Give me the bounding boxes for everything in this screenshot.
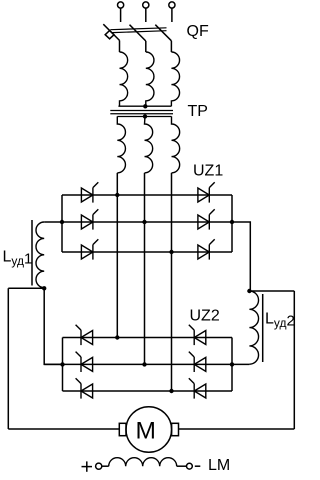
wire QF pole3 to TP	[170, 41, 172, 52]
wire QF pole1 to TP	[119, 41, 121, 53]
motor brush right	[172, 423, 179, 435]
junction phase C / UZ1 row3	[169, 250, 173, 254]
wire UZ1 row 2	[44, 221, 232, 223]
terminal LM plus	[96, 463, 102, 469]
terminal L1	[118, 2, 124, 22]
wire LM left	[102, 465, 109, 467]
thyristor UZ1 VS5	[198, 209, 215, 229]
breaker QF pole 3 blade	[155, 25, 171, 41]
junction Lud1 bottom	[42, 286, 46, 290]
breaker QF pole 1 blade	[103, 24, 119, 40]
thyristor UZ2 VS7	[76, 325, 93, 345]
svg-text:UZ1: UZ1	[193, 162, 223, 179]
wire QF pole2 to TP	[145, 41, 147, 52]
wire LM right	[177, 465, 187, 467]
label plus	[82, 461, 93, 471]
wire UZ1 row 1	[62, 194, 232, 196]
reactor Lud1 core bar	[31, 220, 33, 286]
terminal L2	[143, 2, 149, 22]
junction primary bus / winding 2	[143, 104, 147, 108]
junction phase B / UZ1 row2	[142, 220, 146, 224]
wire UZ1 output right	[232, 222, 250, 291]
thyristor UZ1 VS6	[198, 239, 215, 259]
junction phase A / UZ1 row1	[115, 193, 119, 197]
wire TP primary star bus	[118, 105, 171, 107]
thyristor UZ2 VS9	[76, 378, 93, 398]
breaker QF pole 2 blade	[130, 25, 146, 41]
transformer TP primary winding 3	[171, 52, 179, 106]
thyristor UZ1 VS1	[81, 182, 98, 202]
junction UZ1 right bus / row2	[230, 220, 234, 224]
thyristor UZ2 VS10	[189, 325, 206, 345]
transformer TP secondary winding 3	[172, 116, 180, 172]
thyristor UZ2 VS8	[76, 352, 93, 372]
thyristor UZ1 VS2	[81, 209, 98, 229]
junction phase B / UZ2 row2	[142, 362, 146, 366]
junction UZ2 left bus / row2	[60, 362, 64, 366]
wire phase C down to UZ2 row3	[171, 173, 173, 391]
wire motor right	[179, 428, 295, 430]
wire UZ2 row 1	[63, 337, 233, 339]
field winding LM	[109, 458, 177, 467]
breaker QF linkage bar	[110, 28, 166, 33]
svg-text:LM: LM	[208, 457, 230, 474]
thyristor UZ2 VS11	[189, 352, 206, 372]
wire right edge down to motor	[293, 291, 295, 429]
svg-text:M: M	[135, 418, 155, 445]
svg-text:UZ2: UZ2	[190, 308, 220, 325]
motor brush left	[119, 423, 126, 435]
thyristor UZ2 VS12	[189, 378, 206, 398]
wire left edge down to motor	[7, 288, 9, 429]
wire phase B down to UZ2 row2	[144, 173, 146, 365]
reactor Lud2 core bar	[262, 294, 264, 362]
wire UZ2 left bus	[62, 338, 64, 392]
wire UZ1 left bus	[61, 195, 63, 252]
reactor Lud2 coil	[249, 291, 258, 364]
wire Lud1 bottom down to UZ2	[44, 288, 62, 364]
svg-text:QF: QF	[187, 23, 209, 40]
junction Lud2 top	[247, 289, 251, 293]
terminal LM minus	[187, 463, 193, 469]
motor M body	[126, 407, 172, 453]
terminal L3	[169, 2, 175, 22]
junction secondary bus / winding 2	[143, 114, 147, 118]
junction UZ1 left bus / row2	[60, 220, 64, 224]
reactor Lud1 coil	[36, 222, 44, 288]
wire phase A down to UZ2 row1	[116, 173, 118, 338]
junction phase C / UZ2 row3	[169, 389, 173, 393]
transformer TP secondary winding 1	[117, 116, 125, 172]
wire UZ2 right bus	[231, 338, 233, 392]
wire UZ2 row 2	[44, 363, 249, 365]
transformer TP core	[110, 111, 173, 114]
thyristor UZ1 VS3	[81, 239, 98, 259]
wire TP secondary star bus	[117, 116, 171, 118]
svg-text:TP: TP	[188, 103, 208, 120]
wire UZ2 row 3	[63, 390, 233, 392]
wire UZ1 right bus	[231, 195, 233, 252]
label minus	[195, 465, 201, 467]
junction phase A / UZ2 row1	[115, 335, 119, 339]
junction UZ2 right bus / row2	[230, 362, 234, 366]
breaker QF handle diamond	[105, 31, 114, 39]
wire motor left	[8, 428, 119, 430]
transformer TP primary winding 2	[146, 52, 154, 106]
wire UZ1 row 3	[62, 251, 232, 253]
wire Lud2 top to right edge	[249, 290, 294, 292]
transformer TP secondary winding 2	[145, 116, 153, 172]
wire Lud1 bottom to left edge	[8, 287, 44, 289]
transformer TP primary winding 1	[120, 52, 128, 106]
thyristor UZ1 VS4	[198, 182, 215, 202]
